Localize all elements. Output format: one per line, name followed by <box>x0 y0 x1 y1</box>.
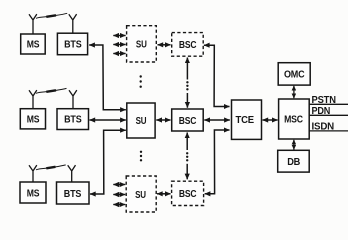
wire SU1 to BSC1 (double arrow) <box>158 44 171 46</box>
svg-text:TCE: TCE <box>236 115 255 126</box>
svg-text:MS: MS <box>27 114 40 125</box>
wire BSC1 to TCE (elbow down) <box>204 45 230 106</box>
wire between BSC2 and BSC3 (up arrow, dots, down arrow) <box>186 133 188 180</box>
ISDN line and label <box>309 122 348 133</box>
svg-text:MS: MS <box>27 40 40 51</box>
svg-text:BTS: BTS <box>64 189 82 200</box>
DB box <box>278 150 310 172</box>
svg-text:DB: DB <box>287 157 300 168</box>
stub link arrows of SU1 <box>113 36 125 54</box>
stub link arrows of SU3 <box>113 185 125 205</box>
MS box MS2 (middle row) <box>20 109 45 129</box>
radio link wave row1 <box>36 13 67 18</box>
svg-text:MSC: MSC <box>284 115 303 126</box>
TCE box <box>232 100 262 139</box>
antenna of BTS2 <box>69 90 77 109</box>
wire BTS2 to SU2 (double arrow) <box>90 119 126 121</box>
antenna of BTS3 <box>68 165 76 182</box>
MSC box <box>279 99 310 139</box>
ellipsis dots between SU1 and SU2 <box>140 75 142 88</box>
wire SU3 to BSC3 (double arrow) <box>157 193 171 195</box>
BSC box BSC1 (top, dashed) <box>172 33 204 57</box>
wire BTS3 to SU2 (elbow up) <box>90 130 126 194</box>
svg-text:BTS: BTS <box>64 114 82 125</box>
svg-text:BSC: BSC <box>179 116 197 127</box>
MS box MS1 (top row) <box>21 34 46 54</box>
radio link wave row2 <box>36 88 67 93</box>
PDN line and label <box>309 106 348 117</box>
wire TCE to MSC (double arrow) <box>263 119 278 121</box>
svg-text:BTS: BTS <box>64 40 82 51</box>
svg-text:MS: MS <box>27 188 40 199</box>
OMC box <box>278 63 310 85</box>
BTS box BTS1 (top row) <box>57 33 87 55</box>
wire BSC2 to TCE (double arrow) <box>204 119 230 121</box>
wire BSC3 to TCE (elbow up) <box>205 130 230 194</box>
ellipsis dots between SU2 and SU3 <box>140 151 142 162</box>
svg-text:BSC: BSC <box>179 189 197 200</box>
wire SU2 to BSC2 (double arrow) <box>156 119 170 121</box>
wire MSC to DB (vertical double arrow) <box>293 140 295 150</box>
antenna of MS1 <box>29 14 37 34</box>
SU box SU3 (bottom, dashed) <box>126 176 156 212</box>
BTS box BTS2 (middle row) <box>57 109 89 130</box>
BSC box BSC2 (middle, solid) <box>172 109 204 131</box>
svg-text:SU: SU <box>135 190 146 201</box>
radio link wave row3 <box>36 165 66 170</box>
antenna of MS2 <box>29 90 37 109</box>
svg-text:OMC: OMC <box>284 70 305 81</box>
wire OMC to MSC (vertical double arrow) <box>293 86 295 98</box>
wire BTS1 to SU2 (elbow down) <box>89 45 126 110</box>
MS box MS3 (bottom row) <box>20 182 46 203</box>
BSC box BSC3 (bottom, dashed) <box>172 181 204 205</box>
SU box SU1 (top, dashed) <box>127 26 157 62</box>
wire between BSC1 and BSC2 (up arrow, dots, down arrow) <box>186 58 188 108</box>
antenna of MS3 <box>29 165 37 182</box>
svg-text:BSC: BSC <box>179 40 197 51</box>
svg-text:SU: SU <box>136 116 147 127</box>
SU box SU2 (middle, solid) <box>127 103 155 138</box>
antenna of BTS1 <box>69 14 77 33</box>
PSTN line and label <box>309 95 348 106</box>
svg-text:SU: SU <box>136 40 147 51</box>
BTS box BTS3 (bottom row) <box>57 182 90 204</box>
